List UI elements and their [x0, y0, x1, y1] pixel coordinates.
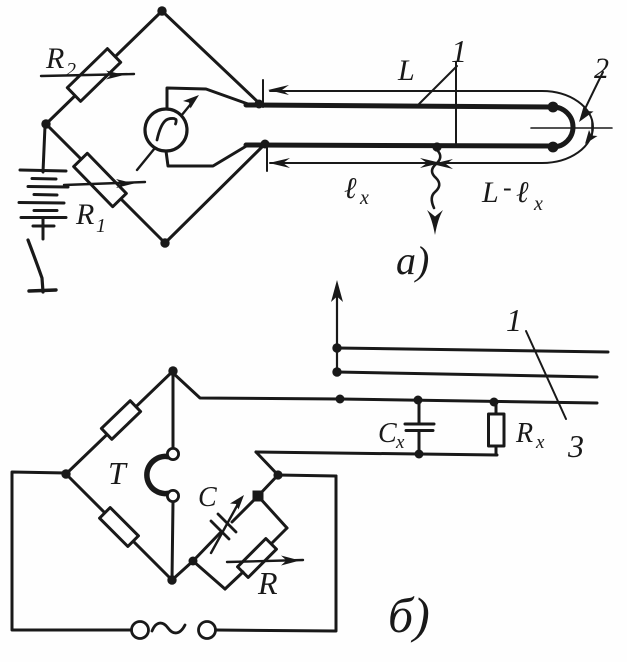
wire galvanometer top to junction J1 [167, 88, 248, 109]
svg-text:3: 3 [567, 428, 584, 464]
capacitor C plates (slashes) [211, 514, 236, 539]
galvanometer letter (Cyrillic Ge) [157, 118, 176, 140]
node Cx tap on line 3 [414, 396, 423, 405]
resistor R2 (box on top-left arm) [67, 49, 120, 102]
node bridge right [273, 470, 282, 479]
wire loop conductor top (thick) [246, 105, 553, 107]
svg-text:б): б) [388, 587, 430, 643]
node J1 junction top conductor [255, 100, 264, 109]
label R2 [45, 42, 76, 81]
node left vertex [41, 119, 50, 128]
leader arrowhead at sheath [579, 105, 594, 122]
node line lower left end [332, 367, 341, 376]
transformer T winding arc [147, 456, 173, 493]
fault squiggle arrow [427, 150, 443, 235]
switch S (open blade) [28, 240, 43, 292]
node bottom vertex b [167, 575, 176, 584]
node C-R left corner [189, 557, 198, 566]
transformer T terminal upper circle [167, 448, 178, 459]
svg-text:T: T [108, 455, 128, 491]
leader line from 1 to fault point [455, 62, 457, 145]
node Rx tap on line 3 [490, 398, 499, 407]
resistor Rx (box) [489, 414, 505, 446]
wire galvanometer bottom to junction J2 [166, 145, 248, 166]
svg-text:1: 1 [451, 33, 467, 69]
node fault point on bottom conductor [432, 142, 441, 151]
wire supply loop right [216, 476, 336, 631]
wire bridge arm lower-left [66, 474, 172, 580]
resistor R (box) [238, 539, 277, 578]
svg-text:R: R [515, 418, 533, 449]
svg-text:ℓ: ℓ [344, 172, 357, 205]
svg-text:C: C [378, 418, 397, 449]
svg-text:R: R [257, 565, 278, 601]
svg-text:R: R [45, 42, 64, 75]
leader line from 2 to sheath [584, 72, 603, 111]
svg-text:L: L [481, 176, 499, 209]
label Cx [378, 418, 405, 453]
capacitor Cx lead top [418, 400, 421, 423]
arrow of adjustable resistor R2 [41, 71, 134, 80]
node Cx bottom on return line [415, 450, 424, 459]
node J2 junction bottom conductor [261, 140, 270, 149]
svg-text:-: - [503, 173, 512, 202]
wire bridge arm top-left (node top to node left) [46, 11, 162, 124]
wire loop conductor bottom (thick) [246, 145, 553, 146]
wire bridge arm bottom-right (node bottom to junction J2) [165, 144, 265, 243]
node C-R top corner (square) [253, 491, 264, 502]
wire to resistor R [271, 528, 287, 544]
galvanometer needle arrow [137, 95, 199, 170]
wire C-R left corner to bottom vertex [172, 561, 193, 580]
dimension arrowhead L (left end) [268, 85, 289, 95]
label Rx [515, 418, 545, 453]
wire capacitor C lower lead [193, 533, 220, 561]
dimension arrowhead lx left end [269, 158, 290, 168]
resistor R1 (box on bottom-left arm) [74, 153, 127, 206]
wire C-R rhombus bottom side [193, 561, 225, 589]
wire bridge arm top-right (node top to junction J1) [162, 11, 259, 103]
capacitor Cx plates [405, 424, 434, 431]
svg-text:1: 1 [96, 215, 106, 237]
wire far-end loop shorting U-turn (thick) [553, 107, 573, 147]
svg-text:1: 1 [506, 302, 522, 338]
transformer T winding lead top [172, 373, 175, 448]
wire capacitor C upper lead [232, 496, 258, 522]
dimension extension tick at J2 [266, 143, 268, 171]
node line upper left end [332, 343, 341, 352]
svg-text:x: x [535, 432, 545, 453]
wire shorting link with arrow up [331, 280, 343, 372]
tick crossing at sheath apex [591, 120, 593, 136]
node top vertex [157, 6, 166, 15]
svg-text:2: 2 [66, 59, 76, 81]
wire from resistor R [225, 572, 243, 589]
transformer T terminal lower circle [167, 490, 178, 501]
label L-lx [481, 173, 543, 215]
label R1 [75, 198, 106, 237]
arrow of variable capacitor C [211, 495, 244, 553]
svg-text:L: L [397, 54, 415, 87]
wire return line D [256, 452, 497, 455]
switch contact tick [29, 290, 56, 291]
node far end top [548, 102, 559, 113]
arrow of adjustable resistor R1 [64, 179, 145, 188]
wire C-R rhombus right side [258, 496, 287, 528]
wire bridge node to C-R corner [258, 475, 278, 496]
transformer T winding lead bottom [172, 502, 173, 580]
AC source terminal circle left [132, 622, 149, 639]
AC source tilde [152, 623, 185, 633]
wire bridge node to supply rectangle [278, 475, 336, 476]
svg-text:R: R [75, 198, 94, 231]
wire bridge arm bottom-left (node left to node bottom) [46, 124, 165, 243]
resistor box on lower-left arm [100, 508, 139, 547]
label lx [344, 172, 369, 209]
galvanometer U1 (circle) [145, 109, 187, 151]
axis line through cable end [531, 127, 612, 129]
wire bridge arm upper-left [66, 371, 173, 474]
wire healthy line 1 lower [337, 372, 597, 377]
svg-text:2: 2 [594, 52, 609, 85]
battery B (multi-cell) [19, 170, 68, 239]
svg-text:x: x [533, 193, 543, 215]
svg-text:x: x [395, 432, 405, 453]
AC source terminal circle right [199, 622, 216, 639]
capacitor Cx lead bottom [418, 431, 421, 454]
leader line from 1 to top conductor [419, 66, 457, 104]
svg-text:а): а) [396, 238, 429, 283]
svg-text:ℓ: ℓ [516, 176, 529, 209]
node far end bottom [548, 142, 559, 153]
small arrowhead below cap [585, 130, 598, 144]
wire supply loop left from left vertex [12, 472, 131, 630]
wire top vertex to measured line 3 [173, 373, 340, 399]
dimension arrowhead lx right end (at fault) [420, 158, 441, 168]
node on line 3 left [336, 395, 345, 404]
svg-text:C: C [198, 482, 217, 513]
node left vertex b [61, 469, 70, 478]
dimension arrowhead L-lx left end (at fault) [432, 159, 453, 169]
dimension extension tick at J1 [262, 80, 264, 107]
wire elbow return line to bridge node [256, 452, 278, 475]
node top vertex b [168, 366, 177, 375]
resistor box on upper-left arm [101, 401, 140, 440]
leader line from 1 to 3 labels [526, 331, 566, 419]
node bottom vertex [160, 238, 169, 247]
resistor Rx lead bottom [495, 446, 498, 454]
arrow of adjustable resistor R [227, 556, 303, 566]
cable sheath outline 2 [270, 91, 593, 163]
wire battery lead from left vertex [43, 126, 45, 172]
wire healthy line 1 upper [337, 348, 608, 352]
svg-text:x: x [359, 187, 369, 209]
resistor Rx lead top [495, 402, 498, 414]
wire measured line 3 (faulty conductor) [340, 399, 597, 403]
